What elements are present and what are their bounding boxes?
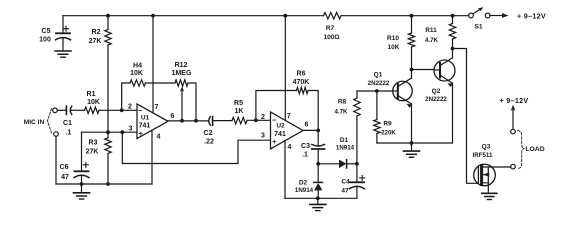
svg-text:3: 3 xyxy=(129,126,133,133)
wire Q1 emitter to ground rail xyxy=(411,104,413,143)
svg-text:+: + xyxy=(139,129,144,138)
svg-text:MIC IN: MIC IN xyxy=(24,119,45,126)
wire bottom-left ground rail xyxy=(56,183,152,185)
node top rail junction U1 pin7 xyxy=(151,14,155,18)
svg-text:H4: H4 xyxy=(133,63,142,70)
svg-text:+ 9–12V: + 9–12V xyxy=(499,96,528,105)
svg-text:+: + xyxy=(272,137,277,146)
node C6 ground junction xyxy=(80,182,84,186)
resistor R1 10K xyxy=(85,107,100,113)
svg-text:220K: 220K xyxy=(381,129,396,136)
capacitor C2 .22 xyxy=(209,117,211,126)
svg-text:1N914: 1N914 xyxy=(295,187,314,194)
wire U2 output xyxy=(303,129,318,131)
node R11 Q2 collector junction xyxy=(451,47,455,51)
svg-text:6: 6 xyxy=(305,122,309,129)
svg-text:47: 47 xyxy=(61,174,69,181)
node R12 end junction xyxy=(194,119,198,123)
node top rail junction U2 pin7 xyxy=(283,14,287,18)
capacitor C1 .1 xyxy=(57,109,66,111)
svg-text:R6: R6 xyxy=(297,71,306,78)
svg-text:−: − xyxy=(138,106,143,115)
terminal LOAD bottom xyxy=(511,164,516,169)
node Q1 collector junction xyxy=(411,70,413,79)
transistor Q2 2N2222 xyxy=(434,60,455,81)
resistor R5 1K xyxy=(232,117,247,123)
wire Q2 emitter to ground rail xyxy=(452,83,454,143)
resistor R7 100ohm xyxy=(324,13,342,19)
pin 4 U1 ground wire xyxy=(151,130,153,184)
svg-text:470K: 470K xyxy=(293,79,310,86)
node R9 base junction xyxy=(375,89,379,93)
resistor R11 4.7K xyxy=(452,16,454,24)
svg-text:6: 6 xyxy=(171,113,175,120)
resistor H4 10K xyxy=(122,83,130,110)
svg-text:10K: 10K xyxy=(130,70,143,77)
svg-text:.1: .1 xyxy=(302,152,308,159)
svg-text:D1: D1 xyxy=(340,137,349,144)
capacitor C4 47uF xyxy=(356,164,358,182)
wire S1 to supply arrow xyxy=(490,15,503,17)
resistor R10 10K xyxy=(411,16,413,33)
svg-text:R12: R12 xyxy=(175,62,188,69)
node R12 wiper junction xyxy=(180,119,184,123)
svg-text:LOAD: LOAD xyxy=(525,146,544,153)
svg-text:4.7K: 4.7K xyxy=(425,37,439,44)
wire mic bottom to ground rail xyxy=(55,136,57,184)
svg-text:7: 7 xyxy=(155,104,159,111)
svg-text:R1: R1 xyxy=(87,91,96,98)
node U2 output junction xyxy=(316,129,320,133)
svg-text:.22: .22 xyxy=(204,139,214,146)
svg-text:.1: .1 xyxy=(66,130,72,137)
wire Q1 collector to Q2 base xyxy=(412,69,435,71)
op-amp U1 741 xyxy=(137,104,168,139)
svg-text:−: − xyxy=(272,116,277,125)
svg-text:47: 47 xyxy=(341,188,349,195)
resistor R6 470K xyxy=(256,91,297,121)
svg-text:C2: C2 xyxy=(204,130,213,137)
svg-text:Q1: Q1 xyxy=(374,72,383,79)
wire Q3 drain to load xyxy=(483,166,511,168)
svg-text:10K: 10K xyxy=(87,99,100,106)
resistor R8 4.7K xyxy=(356,116,358,164)
node U2 pin2 junction xyxy=(254,118,258,122)
wire U1 pin3 bias node xyxy=(82,131,138,133)
node U1 pin2 junction xyxy=(120,108,124,112)
svg-text:+ 9–12V: + 9–12V xyxy=(517,11,546,20)
svg-text:R2: R2 xyxy=(92,29,101,36)
svg-text:U2: U2 xyxy=(276,123,285,130)
svg-text:Q3: Q3 xyxy=(482,144,491,151)
node top rail junction R2 xyxy=(106,14,110,18)
potentiometer R12 1MEG xyxy=(175,80,188,86)
switch S1 xyxy=(469,13,474,18)
transistor Q3 IRF511 MOSFET xyxy=(474,164,496,186)
bracket LOAD xyxy=(518,131,525,169)
capacitor C6 47uF xyxy=(81,132,83,171)
svg-text:D2: D2 xyxy=(299,180,308,187)
pin 7 U1 supply wire xyxy=(152,16,154,113)
svg-text:C1: C1 xyxy=(63,120,72,127)
svg-text:R8: R8 xyxy=(338,99,347,106)
wire top supply rail xyxy=(63,15,324,17)
svg-text:R11: R11 xyxy=(425,27,437,34)
svg-text:IRF511: IRF511 xyxy=(473,152,494,159)
svg-text:Q2: Q2 xyxy=(432,88,441,95)
svg-text:R3: R3 xyxy=(89,140,98,147)
node C3 D1 D2 junction xyxy=(316,162,320,166)
svg-text:1N914: 1N914 xyxy=(336,145,355,152)
svg-text:4: 4 xyxy=(288,144,292,151)
svg-text:2N2222: 2N2222 xyxy=(425,96,447,103)
terminal mic top xyxy=(53,108,58,113)
svg-text:100Ω: 100Ω xyxy=(323,34,339,41)
svg-text:27K: 27K xyxy=(89,38,102,45)
node R3 ground junction xyxy=(106,182,110,186)
wire Q1 base node xyxy=(357,90,393,92)
svg-text:R7: R7 xyxy=(326,25,335,32)
op-amp U2 741 xyxy=(271,112,304,149)
arrow supply up xyxy=(512,109,514,129)
svg-text:3: 3 xyxy=(261,133,265,140)
bracket mic input xyxy=(48,109,52,134)
wire Q2 collector to Q3 gate xyxy=(453,49,478,184)
svg-text:R10: R10 xyxy=(387,35,399,42)
ground below C5 xyxy=(55,50,71,52)
node ground rail junction xyxy=(316,196,320,200)
svg-text:C3: C3 xyxy=(301,143,310,150)
node R2 R3 junction xyxy=(106,130,110,134)
ground below Q3 xyxy=(482,192,497,194)
resistor R2 27K xyxy=(107,16,109,30)
svg-text:C5: C5 xyxy=(42,28,51,35)
svg-text:U1: U1 xyxy=(141,115,150,122)
svg-text:1K: 1K xyxy=(235,108,244,115)
svg-text:2: 2 xyxy=(128,104,132,111)
pin 7 U2 supply wire xyxy=(284,16,286,121)
ground below D2 rail xyxy=(317,198,319,204)
resistor R3 27K xyxy=(107,132,109,138)
svg-text:2N2222: 2N2222 xyxy=(368,80,390,87)
svg-text:2: 2 xyxy=(261,114,265,121)
wire transistor ground rail xyxy=(377,142,453,144)
capacitor C5 100uF xyxy=(62,16,64,33)
ground below rail xyxy=(411,143,413,151)
node top rail junction R10 xyxy=(410,14,414,18)
capacitor C3 .1 xyxy=(317,130,319,145)
terminal LOAD top xyxy=(511,129,516,134)
svg-text:10K: 10K xyxy=(388,44,400,51)
wire Q3 source to ground xyxy=(483,183,488,193)
node D1 C4 R8 junction xyxy=(355,162,359,166)
resistor R9 220K xyxy=(376,91,378,120)
node bias to U2 junction xyxy=(120,130,124,134)
svg-text:7: 7 xyxy=(287,113,291,120)
wiper arrow R12 xyxy=(181,91,183,121)
pin 4 U2 ground wire xyxy=(284,141,286,199)
svg-text:R9: R9 xyxy=(383,121,392,128)
wire U1 output xyxy=(168,120,209,122)
svg-text:4.7K: 4.7K xyxy=(334,109,348,116)
svg-text:C4: C4 xyxy=(341,179,350,186)
ground below C6 xyxy=(81,184,83,193)
transistor Q1 2N2222 xyxy=(393,81,413,101)
wire bottom-middle ground rail xyxy=(285,197,357,199)
svg-text:S1: S1 xyxy=(474,23,483,30)
svg-text:27K: 27K xyxy=(86,149,99,156)
wire bias to U2 pin3 xyxy=(122,132,270,163)
svg-text:R5: R5 xyxy=(234,100,243,107)
diode D2 1N914 xyxy=(317,164,319,183)
node top rail junction R11 xyxy=(451,14,455,18)
svg-text:4: 4 xyxy=(157,134,161,141)
svg-text:C6: C6 xyxy=(60,164,69,171)
wire Q2 collector to R11 xyxy=(452,49,454,58)
node ground junction xyxy=(410,141,414,145)
diode D1 1N914 xyxy=(318,163,339,165)
svg-text:1MEG: 1MEG xyxy=(172,70,192,77)
terminal mic bottom xyxy=(54,132,59,137)
svg-text:100: 100 xyxy=(39,37,51,44)
